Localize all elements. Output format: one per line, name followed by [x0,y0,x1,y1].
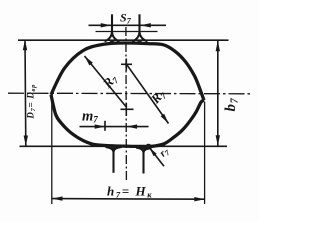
flare junction blob bottom-left [111,146,116,149]
arrow radius A [85,56,93,66]
arrow h left [52,196,63,200]
S dimension line [89,24,167,26]
horizontal centerline [8,92,252,95]
arrow m left [95,124,106,128]
bottom tangent line [20,145,228,147]
radius line A [85,56,127,107]
svg-text:h7= Hк: h7= Hк [107,184,153,200]
body top arc [51,43,204,100]
top tangent line [18,39,229,41]
S second line [96,31,158,33]
fillet junction blob right [146,144,152,148]
arrow bg bottom [216,135,220,146]
arrow m right [127,124,138,128]
svg-text:S7: S7 [120,11,132,26]
flare junction blob top-right [137,41,142,44]
vertical centerline [125,27,128,181]
arrow S right [140,23,151,27]
arrow left-dim bottom [24,136,28,147]
lower center cross [121,103,134,116]
top-right stem [132,14,148,41]
r leader [149,148,164,167]
svg-text:R7: R7 [147,86,169,108]
svg-text:b7: b7 [223,97,241,111]
radius line B [127,65,169,124]
top-left stem [105,14,120,41]
bottom-left stem [106,147,122,173]
upper center cross [121,59,132,71]
bottom dimension line hg [52,198,205,201]
m tick [104,121,106,131]
arrow S left [101,23,112,27]
arrow radius B [161,114,169,124]
svg-text:r7: r7 [158,146,172,160]
flare junction blob top-left [109,41,114,44]
svg-text:m7: m7 [82,109,98,125]
right dimension line bg [217,41,219,146]
bottom-right stem [136,148,152,174]
arrow r leader [149,148,156,157]
m dimension line [80,126,149,128]
svg-text:D7= Dвр: D7= Dвр [25,84,37,120]
extension line left (h) [51,98,53,204]
svg-text:R7: R7 [99,71,121,93]
left dimension line Dg [24,40,27,146]
body bottom arc [51,95,204,147]
arrow bg top [216,41,220,52]
arrow left-dim top [23,40,27,51]
flare junction blob bottom-right [141,146,148,150]
arrow h right [194,197,205,201]
extension line right (h) [204,102,206,204]
